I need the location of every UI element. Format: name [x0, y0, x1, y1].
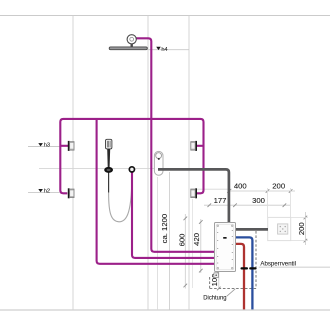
- dimension 600 tick top: [184, 217, 188, 221]
- svg-text:600: 600: [177, 234, 186, 247]
- mixer box marks left: [217, 232, 218, 264]
- mixer box screws: [217, 225, 233, 269]
- shower head ball joint: [127, 35, 136, 44]
- square outlet extension top right: [290, 188, 292, 217]
- label Absperrventil leader: [259, 266, 330, 268]
- tick 177/300 mid: [233, 203, 237, 207]
- mixer box body: [215, 223, 236, 272]
- holder height reference line: [39, 168, 157, 170]
- wall outlet square inner plate: [278, 224, 288, 234]
- hand shower 1 hose curve: [109, 173, 132, 222]
- shower head ball inner: [130, 37, 134, 41]
- wall outlet square inner dots: [280, 226, 286, 232]
- mixer cartridge slot: [223, 237, 226, 239]
- seal dashed line left vertical: [209, 277, 211, 289]
- mixer bottom plug: [214, 273, 219, 278]
- shut-off valve red: [241, 267, 249, 269]
- dimension 100 line: [218, 272, 220, 289]
- dimension ca.1200 line: [169, 172, 171, 310]
- svg-text:200: 200: [297, 222, 306, 235]
- dimension 420 tick top: [199, 220, 203, 224]
- capsule hand shower holder: [154, 151, 163, 175]
- tick 400 left: [227, 189, 231, 193]
- tick 300 right: [283, 203, 287, 207]
- shower head disc: [109, 47, 147, 50]
- hand shower 1 handle: [107, 149, 110, 167]
- pipe shower head run: [136, 38, 215, 252]
- wall vertical line A: [72, 16, 74, 311]
- fitting h3 left: [68, 141, 74, 151]
- fitting upper right: [191, 141, 197, 151]
- dimension 420 line: [200, 219, 202, 273]
- wall vertical line C: [188, 16, 190, 311]
- svg-text:200: 200: [272, 182, 285, 191]
- pipe red hot: [235, 244, 244, 310]
- dimension 177/300 line: [204, 204, 290, 206]
- dimension 420 tick bottom: [199, 269, 203, 273]
- pipe blue cold: [235, 237, 252, 309]
- tick 177 left: [208, 203, 212, 207]
- square outlet extension right bottom: [291, 240, 308, 242]
- svg-text:h3: h3: [44, 143, 50, 149]
- label Dichtung leader: [227, 289, 236, 296]
- height mark h4 triangle: [156, 47, 161, 50]
- hand shower 1 hose upper: [108, 173, 110, 193]
- hand shower 1 knob highlight: [107, 169, 111, 171]
- mixer bottom plug dot: [215, 274, 217, 276]
- dimension 600 tick bottom: [184, 284, 188, 288]
- wall top line: [0, 15, 330, 17]
- tick 200 right: [289, 189, 293, 193]
- tick 400/200 mid: [266, 189, 270, 193]
- hand shower 1 head stripes: [107, 141, 110, 148]
- fitting h2 left: [68, 188, 74, 198]
- height mark h2 triangle: [38, 189, 43, 192]
- dimension 400/200 line: [229, 190, 295, 192]
- pipe h3 right stub: [196, 145, 203, 147]
- shower head stem: [131, 44, 133, 47]
- pipe supply drop to mixer: [97, 119, 215, 264]
- h3 reference line: [28, 146, 60, 148]
- mixer box marks right: [232, 230, 233, 260]
- svg-text:420: 420: [192, 233, 201, 246]
- svg-text:400: 400: [234, 182, 247, 191]
- dimension 600 line: [184, 214, 186, 289]
- shut-off valve blue: [249, 267, 256, 269]
- svg-text:Dichtung: Dichtung: [203, 295, 227, 302]
- capsule circle: [156, 153, 162, 159]
- dimension 200 vertical line: [304, 212, 306, 245]
- pipe h3 stub: [60, 145, 68, 147]
- svg-text:h2: h2: [44, 189, 50, 195]
- square outlet extension top left: [267, 188, 269, 217]
- tick 200v top: [304, 216, 308, 220]
- svg-text:300: 300: [252, 196, 265, 205]
- wall vertical line B: [147, 16, 149, 311]
- floor line: [0, 309, 330, 311]
- tick 200v bottom: [304, 239, 308, 243]
- pipe magenta riser frame: [60, 119, 203, 193]
- tick 100 top: [217, 270, 221, 274]
- extension line fitting horizontal: [197, 188, 232, 190]
- capsule dot: [158, 158, 160, 160]
- extension line fitting right: [191, 199, 193, 288]
- h4 reference line: [149, 49, 190, 51]
- wall outlet square: [268, 217, 291, 240]
- svg-text:h4: h4: [161, 47, 167, 53]
- svg-text:ca. 1200: ca. 1200: [160, 214, 169, 244]
- height mark h3 triangle: [38, 143, 43, 146]
- pipe gray mixer to square outlet: [235, 228, 268, 231]
- tick 100 bottom: [217, 287, 221, 291]
- h2 reference line: [28, 191, 60, 193]
- fitting lower right: [191, 188, 197, 198]
- seal dashed line right vertical: [255, 231, 257, 289]
- seal dashed line bottom horizontal: [210, 288, 256, 290]
- hand shower 1 head: [106, 139, 112, 149]
- extension line capsule: [157, 177, 159, 310]
- svg-text:177: 177: [214, 196, 227, 205]
- pipe gray hose run to mixer: [158, 169, 229, 222]
- pipe hand shower outlet run: [132, 173, 215, 258]
- hand shower 1 holder knob: [104, 167, 113, 173]
- hand shower 2 outlet ring: [129, 167, 134, 172]
- mixer box inner outline: [216, 224, 233, 269]
- square outlet extension right top: [291, 217, 308, 219]
- svg-text:Absperrventil: Absperrventil: [260, 260, 296, 267]
